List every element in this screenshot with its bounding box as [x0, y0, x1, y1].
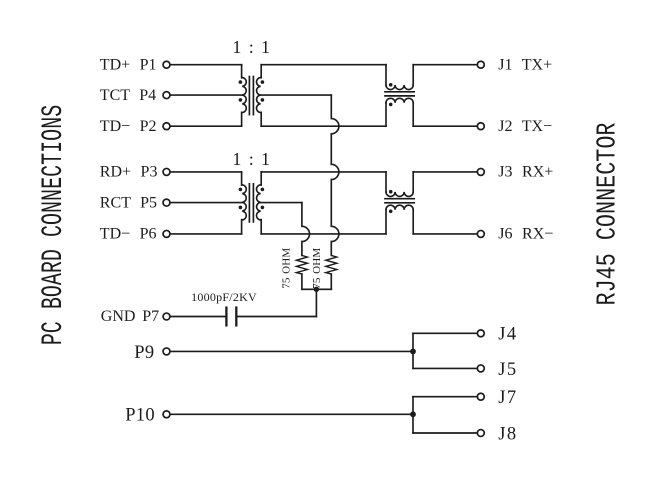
svg-text:J5: J5 — [498, 360, 517, 380]
svg-text:J8: J8 — [498, 424, 517, 444]
svg-text:75 OHM: 75 OHM — [281, 248, 293, 289]
svg-text:J7: J7 — [498, 388, 517, 408]
svg-text:1000pF/2KV: 1000pF/2KV — [191, 290, 257, 304]
svg-text:P10: P10 — [125, 406, 155, 426]
svg-text:PC BOARD CONNECTIONS: PC BOARD CONNECTIONS — [37, 105, 71, 346]
svg-text:TD+ P1: TD+ P1 — [100, 56, 157, 73]
svg-text:75 OHM: 75 OHM — [311, 248, 323, 289]
svg-text:GND P7: GND P7 — [101, 308, 159, 325]
svg-text:J1 TX+: J1 TX+ — [498, 56, 552, 73]
svg-text:J4: J4 — [498, 325, 517, 345]
svg-text:1 : 1: 1 : 1 — [232, 37, 270, 57]
svg-text:RJ45 CONNECTOR: RJ45 CONNECTOR — [592, 122, 622, 305]
svg-text:TD− P6: TD− P6 — [100, 226, 157, 243]
svg-text:TCT P4: TCT P4 — [100, 87, 156, 104]
svg-text:1 : 1: 1 : 1 — [232, 149, 270, 169]
svg-text:J3 RX+: J3 RX+ — [498, 164, 553, 181]
svg-text:J6 RX−: J6 RX− — [498, 226, 553, 243]
svg-text:RD+ P3: RD+ P3 — [100, 164, 158, 181]
svg-text:RCT P5: RCT P5 — [100, 194, 157, 211]
svg-text:P9: P9 — [134, 343, 154, 363]
svg-text:J2 TX−: J2 TX− — [498, 118, 552, 135]
svg-text:TD− P2: TD− P2 — [100, 118, 157, 135]
